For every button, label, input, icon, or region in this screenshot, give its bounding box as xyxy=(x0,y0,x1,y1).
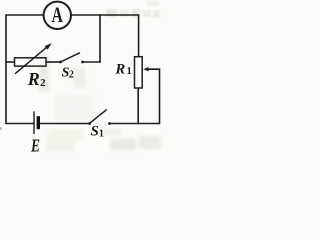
svg-text:R: R xyxy=(115,62,126,78)
svg-text:A: A xyxy=(51,4,63,28)
svg-text:S: S xyxy=(91,123,99,139)
svg-text:2: 2 xyxy=(69,70,74,81)
svg-text:1: 1 xyxy=(127,66,132,77)
svg-text:E: E xyxy=(30,137,40,153)
svg-text:1: 1 xyxy=(99,128,104,139)
svg-text:R: R xyxy=(27,69,40,89)
svg-text:2: 2 xyxy=(40,77,46,89)
